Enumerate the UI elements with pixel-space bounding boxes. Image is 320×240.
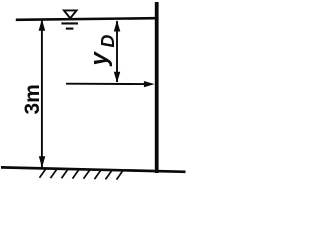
wire: 3m dimension line (41, 20, 43, 167)
arrowhead down (yD bottom) (114, 72, 121, 83)
arrowhead up (yD top) (114, 20, 121, 31)
wire: water surface line (16, 18, 155, 20)
ground hatching (40, 169, 124, 180)
arrowhead right (to wall) (144, 81, 155, 87)
arrowhead up (3m top) (39, 19, 46, 31)
wire: horizontal arrow line (depth pointer) (66, 83, 146, 85)
svg-text:3m: 3m (21, 84, 44, 114)
free-surface dash 1 (61, 22, 78, 24)
wall (right vertical wall) (155, 2, 159, 173)
label yD (86, 35, 118, 67)
free-surface dash 2 (66, 28, 74, 30)
free-surface triangle symbol (64, 10, 77, 18)
wire: yD dimension line (116, 21, 118, 82)
arrowhead down (3m bottom) (39, 156, 46, 167)
ground line (1, 167, 186, 171)
